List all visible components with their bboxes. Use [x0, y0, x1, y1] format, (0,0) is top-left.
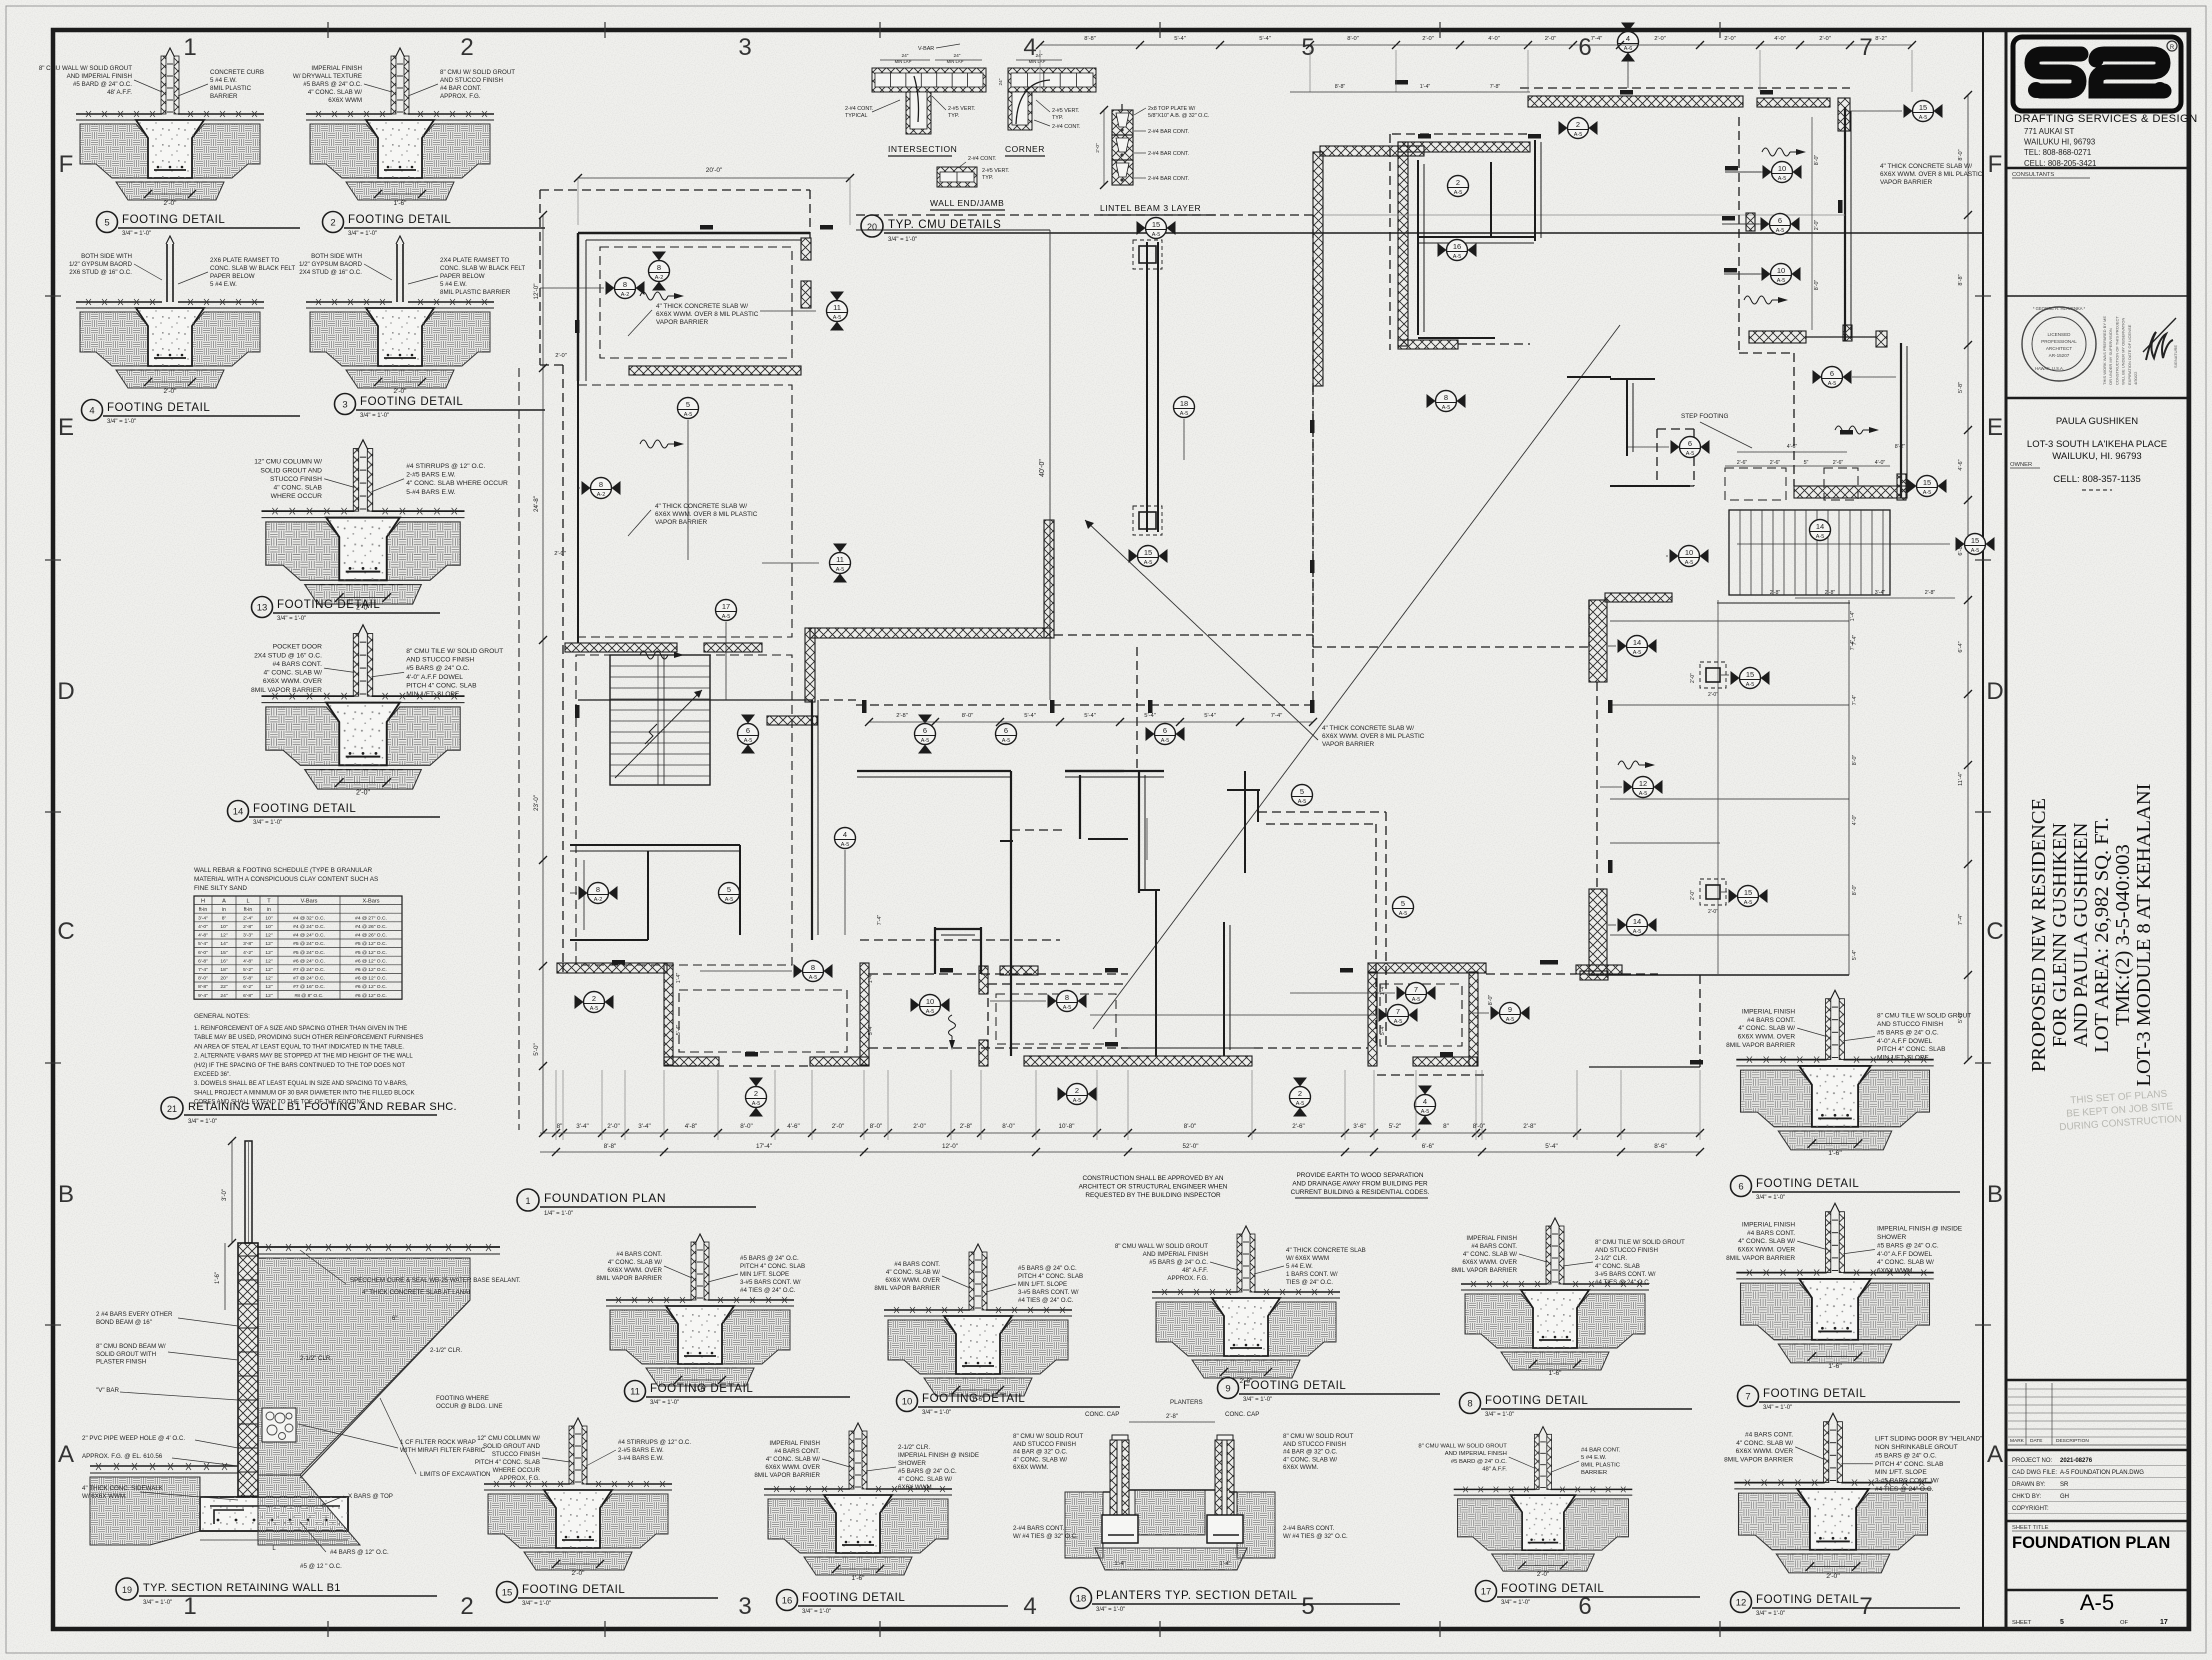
svg-text:12": 12"	[265, 967, 272, 973]
svg-text:#5 @ 12 " O.C.: #5 @ 12 " O.C.	[300, 1563, 342, 1570]
svg-text:15": 15"	[220, 950, 227, 956]
svg-text:2'-0": 2'-0"	[1826, 1573, 1840, 1580]
svg-text:DESCRIPTION: DESCRIPTION	[2056, 1438, 2089, 1444]
svg-text:A-5: A-5	[1919, 115, 1928, 121]
svg-text:3/4" = 1'-0": 3/4" = 1'-0"	[1243, 1397, 1272, 1403]
svg-text:#5 BARS @ 24" O.C.: #5 BARS @ 24" O.C.	[1877, 1029, 1939, 1036]
svg-text:PROVIDE EARTH TO WOOD SEPARATI: PROVIDE EARTH TO WOOD SEPARATION	[1297, 1172, 1424, 1179]
svg-text:2'-0": 2'-0"	[1545, 36, 1557, 42]
svg-text:#4 STIRRUPS @ 12" O.C.: #4 STIRRUPS @ 12" O.C.	[618, 1439, 691, 1446]
svg-text:8MIL PLASTIC: 8MIL PLASTIC	[1581, 1463, 1621, 1469]
svg-text:FOUNDATION PLAN: FOUNDATION PLAN	[544, 1191, 666, 1205]
svg-text:2x8 TOP PLATE W/: 2x8 TOP PLATE W/	[1148, 106, 1196, 112]
svg-text:BOTH SIDE WITH: BOTH SIDE WITH	[311, 253, 362, 260]
project info block	[2006, 1449, 2188, 1452]
svg-text:3/4" = 1'-0": 3/4" = 1'-0"	[522, 1601, 551, 1607]
svg-text:#5 BARS @ 24" O.C.: #5 BARS @ 24" O.C.	[1875, 1452, 1937, 1459]
far right room	[1749, 331, 1806, 343]
wall segment + porch 2	[869, 973, 1128, 975]
svg-text:6X6X WWM. OVER 8 MIL PLASTIC: 6X6X WWM. OVER 8 MIL PLASTIC	[1322, 733, 1425, 740]
svg-text:7'-4": 7'-4"	[1591, 36, 1603, 42]
svg-text:#4 BAR CONT.: #4 BAR CONT.	[1581, 1447, 1621, 1453]
svg-text:IMPERIAL FINISH: IMPERIAL FINISH	[1742, 1221, 1796, 1228]
svg-text:7'-4": 7'-4"	[1852, 635, 1858, 646]
svg-text:2'-0": 2'-0"	[1422, 36, 1434, 42]
svg-text:3'-3": 3'-3"	[243, 933, 253, 939]
svg-text:5'-4": 5'-4"	[198, 941, 208, 947]
svg-text:#7 @ 24" O.C.: #7 @ 24" O.C.	[293, 976, 325, 982]
svg-text:A-5: A-5	[725, 897, 734, 903]
svg-text:2: 2	[592, 994, 596, 1003]
svg-text:IMPERIAL FINISH: IMPERIAL FINISH	[1742, 1008, 1796, 1015]
svg-text:4" CONC. SLAB WHERE OCCUR: 4" CONC. SLAB WHERE OCCUR	[406, 480, 508, 487]
svg-text:6": 6"	[392, 1316, 397, 1322]
svg-text:8MIL VAPOR BARRIER: 8MIL VAPOR BARRIER	[1726, 1042, 1795, 1049]
footing detail 3	[299, 236, 525, 395]
svg-text:PITCH 4" CONC. SLAB: PITCH 4" CONC. SLAB	[406, 683, 477, 690]
svg-text:CURRENT BUILDING & RESIDENTIAL: CURRENT BUILDING & RESIDENTIAL CODES.	[1291, 1189, 1430, 1196]
svg-text:6: 6	[1738, 1182, 1743, 1193]
svg-text:4'-0": 4'-0"	[1875, 460, 1886, 466]
svg-text:#4 BAR @ 32" O.C.: #4 BAR @ 32" O.C.	[1013, 1449, 1068, 1456]
svg-text:PITCH 4" CONC. SLAB: PITCH 4" CONC. SLAB	[1018, 1273, 1083, 1280]
svg-text:5'-4": 5'-4"	[1084, 713, 1096, 719]
svg-text:8MIL VAPOR BARRIER: 8MIL VAPOR BARRIER	[754, 1472, 820, 1479]
sheet title block	[2006, 1520, 2188, 1523]
svg-text:3/4" = 1'-0": 3/4" = 1'-0"	[107, 419, 136, 425]
svg-text:3. DOWELS SHALL BE AT LEAST EQ: 3. DOWELS SHALL BE AT LEAST EQUAL IN SIZ…	[194, 1081, 408, 1087]
svg-text:6: 6	[1578, 34, 1591, 61]
40ft grid line	[1049, 230, 1051, 700]
svg-text:2'-0": 2'-0"	[607, 1123, 620, 1130]
svg-text:2-1/2" CLR.: 2-1/2" CLR.	[300, 1355, 332, 1362]
svg-text:TYP. SECTION RETAINING WALL B1: TYP. SECTION RETAINING WALL B1	[143, 1582, 341, 1594]
svg-text:W/ 6X6X WWM.: W/ 6X6X WWM.	[82, 1493, 127, 1500]
svg-text:2'-0": 2'-0"	[1537, 1571, 1549, 1578]
svg-text:6X6X WWM. OVER: 6X6X WWM. OVER	[765, 1464, 820, 1471]
svg-text:A-5: A-5	[1002, 738, 1011, 744]
svg-text:8'-0": 8'-0"	[1488, 995, 1494, 1006]
svg-text:MIN 1/FT. SLOPE: MIN 1/FT. SLOPE	[1877, 1055, 1929, 1062]
svg-text:5'-2": 5'-2"	[1389, 1123, 1402, 1130]
svg-text:IMPERIAL FINISH: IMPERIAL FINISH	[1466, 1235, 1517, 1242]
svg-text:A-5: A-5	[1144, 560, 1153, 566]
svg-text:17: 17	[722, 602, 730, 611]
svg-text:2'-0": 2'-0"	[572, 1570, 586, 1577]
svg-text:24": 24"	[220, 993, 227, 999]
left wing bottom hatched band	[565, 643, 677, 652]
consultants box	[2006, 167, 2188, 170]
svg-text:SIGNATURE: SIGNATURE	[2173, 345, 2178, 368]
svg-text:H: H	[201, 898, 205, 904]
svg-text:6X6X WWM. OVER: 6X6X WWM. OVER	[263, 678, 322, 685]
svg-text:REQUESTED BY THE BUILDING INSP: REQUESTED BY THE BUILDING INSPECTOR	[1085, 1192, 1221, 1199]
svg-text:3/4" = 1'-0": 3/4" = 1'-0"	[253, 820, 282, 826]
svg-text:2'-0": 2'-0"	[554, 551, 566, 557]
footing detail 9	[1115, 1226, 1366, 1385]
architect stamp	[2022, 306, 2178, 385]
svg-text:C: C	[1986, 918, 2003, 945]
svg-text:FOOTING DETAIL: FOOTING DETAIL	[1501, 1583, 1604, 1595]
deck bottom strip	[1589, 1066, 1700, 1068]
stairs	[610, 655, 710, 785]
retaining wall B1 section detail 19	[82, 1137, 521, 1570]
svg-text:2-#5 VERT.: 2-#5 VERT.	[982, 168, 1009, 174]
svg-text:6X6X WWM. OVER: 6X6X WWM. OVER	[885, 1277, 940, 1284]
svg-text:6: 6	[1688, 439, 1692, 448]
svg-text:8'-0": 8'-0"	[1347, 36, 1359, 42]
svg-text:14: 14	[233, 807, 244, 818]
footing detail 5 (top-left)	[39, 48, 264, 207]
svg-text:3/4" = 1'-0": 3/4" = 1'-0"	[348, 231, 377, 237]
svg-text:#5 BARS @ 24" O.C.: #5 BARS @ 24" O.C.	[406, 665, 470, 672]
svg-text:2X4 STUD @ 16" O.C.: 2X4 STUD @ 16" O.C.	[299, 269, 362, 276]
svg-text:WHERE OCCUR: WHERE OCCUR	[271, 493, 322, 500]
svg-text:F: F	[59, 151, 74, 178]
svg-text:4: 4	[1023, 1593, 1036, 1620]
svg-text:6'-6": 6'-6"	[1422, 1143, 1435, 1150]
svg-text:#4 BARS CONT.: #4 BARS CONT.	[1471, 1243, 1517, 1250]
svg-text:10'-8": 10'-8"	[1058, 1123, 1074, 1130]
svg-text:4'-0": 4'-0"	[1488, 36, 1500, 42]
svg-text:MIN 1/FT. SLOPE: MIN 1/FT. SLOPE	[1018, 1281, 1067, 1288]
svg-text:MIN LAP: MIN LAP	[947, 59, 964, 64]
typ CMU details: intersection	[845, 44, 986, 156]
svg-text:A-5: A-5	[1776, 228, 1785, 234]
svg-text:1. REINFORCEMENT OF A SIZE AND: 1. REINFORCEMENT OF A SIZE AND SPACING O…	[194, 1026, 407, 1032]
svg-text:OWNER: OWNER	[2010, 462, 2032, 468]
svg-text:CONC. CAP: CONC. CAP	[1085, 1411, 1119, 1418]
svg-text:IMPERIAL FINISH @ INSIDE: IMPERIAL FINISH @ INSIDE	[1877, 1226, 1963, 1233]
svg-text:AND IMPERIAL FINISH: AND IMPERIAL FINISH	[1143, 1251, 1208, 1258]
svg-text:11: 11	[630, 1387, 640, 1398]
svg-text:3: 3	[342, 400, 347, 411]
svg-text:7'-4": 7'-4"	[1271, 713, 1283, 719]
svg-text:#6 @ 12" O.C.: #6 @ 12" O.C.	[355, 958, 387, 964]
svg-text:6X6X WWM. OVER: 6X6X WWM. OVER	[1736, 1448, 1794, 1455]
svg-text:6X6X WWM. OVER 8 MIL PLASTIC: 6X6X WWM. OVER 8 MIL PLASTIC	[655, 511, 758, 518]
svg-text:2'-0": 2'-0"	[1654, 36, 1666, 42]
svg-text:A-5: A-5	[1421, 1109, 1430, 1115]
svg-text:FOOTING WHERE: FOOTING WHERE	[436, 1395, 489, 1402]
svg-text:20'-0": 20'-0"	[706, 167, 723, 174]
svg-text:10: 10	[1777, 266, 1785, 275]
svg-text:A-5: A-5	[1685, 560, 1694, 566]
project title vertical text	[2028, 783, 2155, 1086]
svg-text:2X6 STUD @ 16" O.C.: 2X6 STUD @ 16" O.C.	[69, 269, 132, 276]
svg-text:5'-4": 5'-4"	[1545, 1143, 1558, 1150]
svg-text:2'-0": 2'-0"	[913, 1123, 926, 1130]
svg-text:#4 @ 24" O.C.: #4 @ 24" O.C.	[293, 924, 325, 930]
svg-text:8" CMU TILE W/ SOLID GROUT: 8" CMU TILE W/ SOLID GROUT	[1877, 1013, 1971, 1020]
deck column squares	[1706, 668, 1720, 682]
svg-text:2: 2	[1576, 120, 1580, 129]
svg-text:2-1/2" CLR.: 2-1/2" CLR.	[898, 1444, 930, 1451]
svg-text:4'-2": 4'-2"	[243, 950, 253, 956]
svg-text:48" A.F.F.: 48" A.F.F.	[1182, 1267, 1208, 1274]
svg-text:WHERE OCCUR: WHERE OCCUR	[493, 1467, 541, 1474]
svg-text:14": 14"	[220, 941, 227, 947]
svg-text:FOOTING DETAIL: FOOTING DETAIL	[1756, 1594, 1859, 1606]
svg-text:FOOTING DETAIL: FOOTING DETAIL	[253, 803, 356, 815]
svg-text:EXCEED 36".: EXCEED 36".	[194, 1072, 231, 1078]
svg-text:CONSTRUCTION SHALL BE APPROVED: CONSTRUCTION SHALL BE APPROVED BY AN	[1083, 1175, 1224, 1182]
svg-text:2X6 PLATE RAMSET TO: 2X6 PLATE RAMSET TO	[210, 257, 280, 264]
svg-text:5'-4": 5'-4"	[1144, 713, 1156, 719]
svg-text:3/4" = 1'-0": 3/4" = 1'-0"	[1763, 1405, 1792, 1411]
courtyard boundary dashed	[856, 214, 1313, 216]
svg-text:3/4" = 1'-0": 3/4" = 1'-0"	[1485, 1412, 1514, 1418]
svg-text:4" THICK CONCRETE SLAB W/: 4" THICK CONCRETE SLAB W/	[1880, 163, 1972, 170]
svg-text:2-#5 BARS E.W.: 2-#5 BARS E.W.	[618, 1447, 664, 1454]
svg-text:2-1/2" CLR.: 2-1/2" CLR.	[1595, 1255, 1627, 1262]
svg-text:BARRIER: BARRIER	[1581, 1470, 1607, 1476]
svg-text:4" CONC. SLAB W/: 4" CONC. SLAB W/	[766, 1456, 820, 1463]
svg-text:12": 12"	[265, 933, 272, 939]
svg-text:11: 11	[836, 555, 844, 564]
svg-text:AND DRAINAGE AWAY FROM BUILDIN: AND DRAINAGE AWAY FROM BUILDING PER	[1292, 1181, 1428, 1188]
svg-text:1'-4": 1'-4"	[1420, 84, 1431, 90]
svg-text:1: 1	[183, 34, 196, 61]
svg-text:#4 @ 24" O.C.: #4 @ 24" O.C.	[293, 933, 325, 939]
svg-text:APPROX. F.G. @ EL. 610.56: APPROX. F.G. @ EL. 610.56	[82, 1453, 163, 1460]
svg-text:AND STUCCO FINISH: AND STUCCO FINISH	[1877, 1021, 1943, 1028]
svg-text:W/ #4 TIES @ 32" O.C.: W/ #4 TIES @ 32" O.C.	[1013, 1533, 1078, 1540]
svg-text:A-5: A-5	[1816, 534, 1825, 540]
svg-text:SHOWER: SHOWER	[1877, 1234, 1907, 1241]
svg-text:4'-0" A.F.F DOWEL: 4'-0" A.F.F DOWEL	[1877, 1038, 1933, 1045]
svg-text:#4 TIES @ 24" O.C.: #4 TIES @ 24" O.C.	[1018, 1297, 1074, 1304]
svg-text:1/2" GYPSUM BAORD: 1/2" GYPSUM BAORD	[69, 261, 133, 268]
svg-text:18: 18	[1180, 399, 1188, 408]
svg-text:8'-0": 8'-0"	[1852, 755, 1858, 766]
svg-text:LINTEL BEAM 3 LAYER: LINTEL BEAM 3 LAYER	[1100, 203, 1201, 213]
svg-text:8MIL VAPOR BARRIER: 8MIL VAPOR BARRIER	[1724, 1457, 1793, 1464]
garage walls	[1528, 96, 1743, 107]
svg-text:3/4" = 1'-0": 3/4" = 1'-0"	[122, 231, 151, 237]
squiggle arrows	[640, 292, 668, 300]
svg-text:8'-0": 8'-0"	[1184, 1123, 1197, 1130]
svg-text:8'-0": 8'-0"	[1852, 885, 1858, 896]
svg-text:3'-4": 3'-4"	[638, 1123, 651, 1130]
svg-text:2'-6": 2'-6"	[1770, 460, 1781, 466]
svg-text:CONSTRUCTION OF THIS PROJECT: CONSTRUCTION OF THIS PROJECT	[2114, 316, 2119, 385]
svg-text:8: 8	[623, 280, 627, 289]
svg-text:#5 BARS @ 24" O.C.: #5 BARS @ 24" O.C.	[740, 1255, 799, 1262]
footing detail 16	[754, 1423, 979, 1582]
wall segment right of porch3	[1576, 965, 1622, 974]
svg-text:12" CMU COLUMN W/: 12" CMU COLUMN W/	[254, 459, 322, 466]
svg-text:WITH MIRAFI FILTER FABRIC: WITH MIRAFI FILTER FABRIC	[400, 1447, 486, 1454]
svg-text:A-5: A-5	[1298, 799, 1307, 805]
svg-text:BOND BEAM @ 16": BOND BEAM @ 16"	[96, 1319, 152, 1326]
svg-text:5'-0": 5'-0"	[533, 1043, 540, 1056]
svg-text:3/4" = 1'-0": 3/4" = 1'-0"	[360, 413, 389, 419]
svg-text:4'-8": 4'-8"	[685, 1123, 698, 1130]
svg-text:17'-4": 17'-4"	[756, 1143, 772, 1150]
svg-text:10: 10	[926, 997, 934, 1006]
step footing dashed boxes	[1725, 468, 1786, 500]
svg-text:3/4" = 1'-0": 3/4" = 1'-0"	[1501, 1600, 1530, 1606]
footing detail 8	[1451, 1218, 1685, 1377]
svg-text:LOT-3 SOUTH LA'IKEHA PLACE: LOT-3 SOUTH LA'IKEHA PLACE	[2027, 439, 2167, 450]
svg-text:ARCHITECT OR STRUCTURAL ENGINE: ARCHITECT OR STRUCTURAL ENGINEER WHEN	[1079, 1184, 1228, 1191]
svg-text:STEP FOOTING: STEP FOOTING	[1681, 413, 1728, 420]
svg-text:12": 12"	[265, 958, 272, 964]
svg-text:4'-6": 4'-6"	[1787, 444, 1798, 450]
svg-text:2'-8": 2'-8"	[1166, 1414, 1178, 1420]
svg-text:1'-6": 1'-6"	[1549, 1370, 1563, 1377]
revision table	[2006, 1379, 2188, 1382]
svg-text:8" CMU TILE W/ SOLID GROUT: 8" CMU TILE W/ SOLID GROUT	[1595, 1239, 1685, 1246]
svg-text:F: F	[1988, 151, 2003, 178]
svg-text:10": 10"	[265, 924, 272, 930]
svg-text:8: 8	[1444, 393, 1448, 402]
svg-text:3-#5 BARS CONT. W/: 3-#5 BARS CONT. W/	[1018, 1289, 1079, 1296]
svg-text:2'-4": 2'-4"	[243, 915, 253, 921]
svg-text:MIN 1/FT. SLOPE: MIN 1/FT. SLOPE	[740, 1271, 789, 1278]
svg-text:8'-0": 8'-0"	[962, 713, 974, 719]
svg-text:2-#4 BAR CONT.: 2-#4 BAR CONT.	[1148, 151, 1189, 157]
svg-text:B: B	[1987, 1181, 2003, 1208]
svg-text:1'-6": 1'-6"	[1828, 1150, 1842, 1157]
svg-text:A-5: A-5	[1073, 1098, 1082, 1104]
svg-text:T: T	[267, 898, 271, 904]
svg-text:A-5: A-5	[921, 738, 930, 744]
svg-text:#4 BARS CONT.: #4 BARS CONT.	[774, 1448, 820, 1455]
svg-text:#4 BARS CONT.: #4 BARS CONT.	[1747, 1017, 1795, 1024]
svg-text:4" CONC. SLAB W/: 4" CONC. SLAB W/	[263, 670, 322, 677]
svg-text:4" CONC. SLAB W/: 4" CONC. SLAB W/	[308, 89, 362, 96]
svg-text:MIN LAP: MIN LAP	[1029, 59, 1046, 64]
svg-text:4'-6": 4'-6"	[1958, 459, 1964, 470]
svg-text:4" CONC. SLAB W/: 4" CONC. SLAB W/	[1736, 1440, 1793, 1447]
svg-text:3: 3	[738, 1593, 751, 1620]
garage right wall (double line)	[1844, 107, 1846, 341]
svg-text:FOOTING DETAIL: FOOTING DETAIL	[348, 214, 451, 226]
svg-text:in: in	[222, 907, 226, 913]
svg-text:A-2: A-2	[621, 292, 630, 298]
left vertical dim chain	[518, 368, 520, 1130]
svg-text:A-5: A-5	[841, 842, 850, 848]
svg-text:2" PVC PIPE WEEP HOLE @ 4' O.C: 2" PVC PIPE WEEP HOLE @ 4' O.C.	[82, 1435, 185, 1442]
svg-text:5 #4 E.W.: 5 #4 E.W.	[210, 77, 237, 84]
svg-text:6X6X WWM.: 6X6X WWM.	[898, 1484, 934, 1491]
svg-text:8": 8"	[222, 915, 227, 921]
svg-text:PAPER BELOW: PAPER BELOW	[440, 273, 485, 280]
svg-text:12": 12"	[265, 993, 272, 999]
svg-text:POCKET DOOR: POCKET DOOR	[273, 644, 322, 651]
svg-text:3'-0": 3'-0"	[222, 1189, 228, 1201]
svg-text:OCCUR @ BLDG. LINE: OCCUR @ BLDG. LINE	[436, 1403, 502, 1410]
svg-text:A-5: A-5	[1454, 190, 1463, 196]
bbq structure between porches	[934, 927, 936, 974]
svg-text:6'-4": 6'-4"	[1958, 641, 1964, 652]
svg-text:FOR GLENN GUSHIKEN: FOR GLENN GUSHIKEN	[2049, 823, 2071, 1048]
svg-text:LICENSED: LICENSED	[2048, 332, 2072, 337]
svg-text:1/4" = 1'-0": 1/4" = 1'-0"	[544, 1211, 573, 1217]
svg-text:2'-0": 2'-0"	[394, 388, 408, 395]
svg-text:20": 20"	[220, 976, 227, 982]
svg-text:6X6X WWM.: 6X6X WWM.	[1877, 1268, 1914, 1275]
svg-text:8": 8"	[557, 1123, 563, 1130]
svg-text:5'-4": 5'-4"	[676, 1025, 682, 1036]
svg-text:A-5: A-5	[1778, 176, 1787, 182]
svg-text:2'-6": 2'-6"	[1292, 1123, 1305, 1130]
svg-text:4'-6": 4'-6"	[787, 1123, 800, 1130]
svg-text:D: D	[57, 678, 74, 705]
svg-text:7: 7	[1414, 985, 1418, 994]
svg-text:5'-4": 5'-4"	[1204, 713, 1216, 719]
svg-text:4'-0": 4'-0"	[1852, 815, 1858, 826]
svg-text:2'-0": 2'-0"	[164, 388, 178, 395]
svg-text:2'-6": 2'-6"	[1737, 460, 1748, 466]
svg-text:8'-2": 8'-2"	[1895, 444, 1906, 450]
svg-text:2'-0": 2'-0"	[1095, 143, 1101, 153]
svg-text:2 #4 BARS EVERY OTHER: 2 #4 BARS EVERY OTHER	[96, 1311, 173, 1318]
svg-text:#6 @ 12" O.C.: #6 @ 12" O.C.	[355, 993, 387, 999]
svg-text:2'-0": 2'-0"	[164, 200, 178, 207]
svg-text:7: 7	[1396, 1007, 1400, 1016]
svg-text:4" CONC. SLAB: 4" CONC. SLAB	[1595, 1263, 1640, 1270]
svg-text:2'-8": 2'-8"	[960, 1123, 973, 1130]
svg-text:8'-0": 8'-0"	[740, 1123, 753, 1130]
svg-text:8'-8": 8'-8"	[1084, 36, 1096, 42]
svg-text:TYPICAL: TYPICAL	[845, 113, 867, 119]
svg-text:2'-0": 2'-0"	[356, 789, 370, 796]
svg-text:8" CMU W/ SOLID ROUT: 8" CMU W/ SOLID ROUT	[1013, 1433, 1083, 1440]
detail markers on plan	[606, 278, 645, 299]
svg-text:5 #4 E.W.: 5 #4 E.W.	[1581, 1455, 1607, 1461]
svg-text:FOOTING DETAIL: FOOTING DETAIL	[922, 1393, 1025, 1405]
svg-text:1 BARS CONT. W/: 1 BARS CONT. W/	[1286, 1271, 1338, 1278]
svg-text:12": 12"	[265, 976, 272, 982]
svg-text:2'-0": 2'-0"	[1708, 692, 1718, 698]
svg-text:4" CONC. SLAB W/: 4" CONC. SLAB W/	[1463, 1251, 1517, 1258]
drawing area / title block divider	[1982, 30, 1984, 1629]
svg-text:5 #4 E.W.: 5 #4 E.W.	[1286, 1263, 1313, 1270]
svg-text:PITCH 4" CONC. SLAB: PITCH 4" CONC. SLAB	[475, 1459, 540, 1466]
20ft dim left wing	[578, 177, 850, 179]
svg-text:13: 13	[257, 603, 268, 614]
svg-text:10: 10	[1778, 164, 1786, 173]
svg-text:HAWAII, U.S.A.: HAWAII, U.S.A.	[2035, 366, 2064, 371]
svg-text:A-2: A-2	[597, 492, 606, 498]
svg-text:7: 7	[1859, 34, 1872, 61]
svg-text:1 CF FILTER ROCK WRAP: 1 CF FILTER ROCK WRAP	[400, 1439, 476, 1446]
svg-text:A-5: A-5	[1633, 929, 1642, 935]
svg-text:#4 BARS CONT.: #4 BARS CONT.	[894, 1261, 940, 1268]
svg-text:WALL END/JAMB: WALL END/JAMB	[930, 198, 1004, 208]
svg-text:BOTH SIDE WITH: BOTH SIDE WITH	[81, 253, 132, 260]
svg-text:5: 5	[1401, 899, 1405, 908]
svg-text:2'-0": 2'-0"	[1814, 220, 1820, 231]
footing detail 4	[69, 236, 295, 395]
svg-text:2'-0": 2'-0"	[1819, 36, 1831, 42]
svg-text:4" THICK CONC. SIDEWALK: 4" THICK CONC. SIDEWALK	[82, 1485, 164, 1492]
svg-text:THIS WORK WAS PREPARED BY ME: THIS WORK WAS PREPARED BY ME	[2102, 316, 2107, 385]
footing detail 2 (top-right of cluster)	[293, 48, 515, 207]
svg-text:8: 8	[811, 963, 815, 972]
svg-text:11: 11	[833, 303, 841, 312]
svg-text:PLASTER FINISH: PLASTER FINISH	[96, 1359, 146, 1366]
svg-text:1/2" GYPSUM BAORD: 1/2" GYPSUM BAORD	[299, 261, 363, 268]
svg-text:3-#4 BARS E.W.: 3-#4 BARS E.W.	[618, 1455, 664, 1462]
svg-text:6X6X WWM. OVER: 6X6X WWM. OVER	[1738, 1034, 1796, 1041]
svg-text:FOOTING DETAIL: FOOTING DETAIL	[1756, 1178, 1859, 1190]
svg-text:A-5: A-5	[1161, 738, 1170, 744]
svg-text:A-2: A-2	[655, 275, 664, 281]
